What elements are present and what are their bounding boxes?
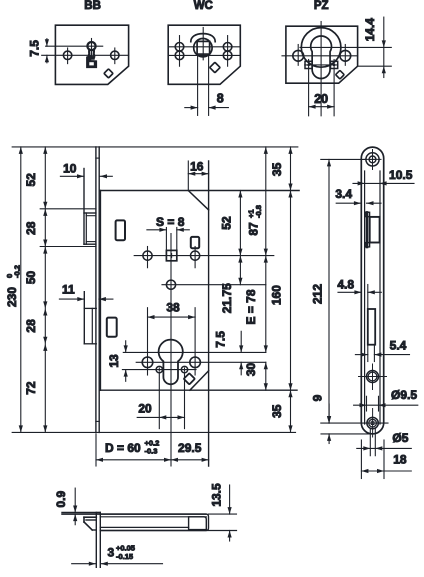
svg-text:PZ: PZ	[314, 0, 329, 12]
WC right twin vertical tick	[227, 36, 229, 67]
dimension 13.5 extension line top	[209, 513, 237, 515]
dimension S=8 line and arrows	[147, 229, 167, 231]
section faceplate strip	[95, 513, 97, 568]
WC center big circle	[194, 39, 212, 57]
svg-text:3: 3	[108, 546, 115, 560]
PZ left hole circle	[293, 50, 304, 61]
PZ circle axis line extended right	[300, 46, 391, 48]
dimension D extension line	[95, 434, 97, 466]
PZ horizontal center line	[282, 55, 358, 57]
dimension 52 right line and arrows	[239, 191, 241, 256]
dimension 20 extension lines main	[158, 374, 160, 429]
svg-text:8: 8	[217, 92, 224, 106]
svg-text:D = 60: D = 60	[105, 441, 141, 455]
svg-text:30: 30	[244, 363, 258, 377]
bottom fixing screw hole	[367, 417, 378, 428]
follower center line horizontal	[134, 255, 274, 257]
BB left hole circle	[63, 51, 71, 59]
main view diamond hole	[184, 373, 195, 384]
dimension 9 line and arrows	[328, 404, 330, 423]
PZ vertical center line	[320, 22, 322, 116]
follower square S=8	[166, 250, 176, 260]
dimension 18 line and arrows	[361, 470, 411, 472]
svg-text:S = 8: S = 8	[156, 215, 185, 229]
latch bolt face line	[83, 169, 85, 245]
PZ dimension 14.4 extension line lower	[358, 65, 392, 67]
svg-text:14.4: 14.4	[363, 18, 377, 42]
dimension 38 extension line left	[147, 308, 149, 375]
dimension S=8 extension lines	[165, 228, 167, 251]
PZ dimension 20 extension lines	[308, 60, 310, 116]
PZ left screw square	[305, 61, 312, 68]
dimension 4.8 extension line	[367, 285, 369, 310]
svg-text:7.5: 7.5	[213, 331, 227, 348]
dimension E=78 line and arrows	[265, 256, 267, 353]
svg-text:13.5: 13.5	[209, 483, 223, 507]
dimension 11 line and arrows	[59, 298, 84, 300]
dimension diameter 5 extension lines	[369, 429, 371, 456]
svg-text:160: 160	[269, 285, 283, 305]
dimension 16 extension line	[187, 161, 189, 191]
svg-text:87: 87	[247, 222, 261, 236]
dimension text 87 with tolerance	[247, 205, 264, 236]
case slot lower	[107, 318, 117, 337]
dimension 16 line and arrows	[188, 173, 208, 175]
svg-text:16: 16	[190, 159, 204, 173]
latch window thick edge	[366, 212, 369, 247]
cylinder screw line	[122, 369, 196, 371]
lock case left edge	[99, 191, 101, 391]
main bottom extension line	[12, 431, 295, 433]
svg-text:-0.3: -0.3	[145, 447, 158, 456]
WC right twin holes	[223, 43, 232, 52]
dimension 4.8 line and arrows	[338, 291, 361, 293]
dimension 87 line and arrows	[265, 147, 267, 256]
BB keyhole circle	[87, 42, 95, 50]
BB diamond hole	[104, 69, 113, 78]
left chain dimension line	[44, 147, 46, 433]
BB center line horizontal lower	[42, 54, 129, 56]
dimension 5.4 line and arrows	[355, 354, 367, 356]
lower guide circle extension line	[162, 284, 266, 286]
svg-text:5.4: 5.4	[390, 339, 407, 353]
deadbolt window opening	[368, 309, 375, 345]
middle fixing screw hole	[367, 371, 379, 383]
lock case top right bevel	[188, 191, 208, 210]
left chain arrows at 343.8	[43, 337, 47, 344]
euro cylinder profile main view	[159, 340, 183, 385]
follower right screw vertical tick	[194, 247, 196, 268]
dimension 3 line and arrows	[72, 563, 96, 565]
left chain arrows at 246.5	[43, 240, 47, 247]
dimension 38 line and arrows	[148, 316, 196, 318]
dimension 212 extension top	[321, 158, 366, 160]
svg-text:20: 20	[138, 402, 152, 416]
dimension 10.5 line and arrows	[353, 182, 414, 184]
BB right hole circle	[111, 51, 119, 59]
PZ escutcheon box outline	[286, 26, 358, 83]
WC center square follower	[197, 41, 210, 54]
WC left twin holes	[175, 43, 184, 52]
cylinder axis extension line	[123, 351, 265, 353]
overall dimension text 230 with tolerance	[5, 265, 22, 307]
PZ euro profile keyhole	[311, 36, 332, 78]
svg-text:Ø5: Ø5	[392, 431, 408, 445]
svg-text:38: 38	[166, 301, 180, 315]
BB escutcheon box outline	[55, 25, 128, 84]
svg-text:E = 78: E = 78	[244, 289, 258, 324]
PZ right hole circle	[340, 50, 351, 61]
faceplate notch top	[96, 157, 99, 159]
top fixing screw hole	[366, 153, 379, 166]
svg-text:50: 50	[24, 271, 38, 285]
main faceplate front edge line	[95, 147, 97, 433]
WC center vertical line	[202, 28, 204, 60]
svg-text:10.5: 10.5	[389, 168, 413, 182]
BB key bit	[87, 56, 97, 68]
dimension 9 extension line bottom	[321, 433, 373, 435]
cylinder right side circle	[190, 357, 201, 368]
svg-text:21.75: 21.75	[220, 283, 234, 313]
lower guide circle	[166, 280, 175, 289]
WC horizontal line upper	[168, 46, 240, 48]
follower left screw circle	[143, 251, 152, 260]
WC dimension 8 extension lines	[197, 54, 199, 115]
case slot upper	[116, 220, 125, 240]
dimension 35 top line and arrows	[290, 147, 292, 191]
svg-text:7.5: 7.5	[28, 40, 42, 57]
dimension 20 line and arrows main	[137, 416, 184, 418]
left chain arrows at 308.4	[43, 301, 47, 308]
PZ right hole vertical tick	[344, 45, 346, 66]
dimension 29.5 line and arrows	[171, 459, 209, 461]
PZ right screw square	[331, 61, 338, 68]
WC escutcheon box outline	[168, 25, 240, 84]
dimension diameter 9.5 extension lines	[366, 396, 368, 411]
svg-text:0.9: 0.9	[54, 491, 68, 508]
svg-text:35: 35	[270, 404, 284, 418]
WC horizontal line lower	[168, 54, 240, 56]
svg-text:212: 212	[311, 284, 325, 304]
svg-text:10: 10	[63, 162, 77, 176]
section latch wedge	[84, 516, 96, 518]
svg-text:BB: BB	[84, 0, 101, 12]
cylinder left screw circle	[156, 366, 162, 372]
PZ cylinder rose circle	[301, 28, 341, 68]
svg-text:20: 20	[314, 92, 328, 106]
dimension 212 line and arrows	[328, 159, 330, 423]
svg-text:52: 52	[220, 216, 234, 230]
PZ dimension 20 line and arrows	[309, 106, 335, 108]
overall dimension 230 line and arrows	[20, 147, 22, 433]
svg-text:18: 18	[393, 453, 407, 467]
svg-text:52: 52	[24, 173, 38, 187]
WC dimension 8 line and arrows	[185, 107, 198, 109]
svg-text:4.8: 4.8	[337, 278, 354, 292]
svg-text:9: 9	[311, 394, 325, 401]
left dimension chain extension line 246.5	[40, 246, 96, 248]
dimension 5.4 extension lines	[367, 345, 369, 362]
dimension 10 line and arrows	[60, 175, 84, 177]
svg-text:-0.15: -0.15	[116, 552, 133, 561]
cylinder left side circle	[142, 357, 153, 368]
svg-text:29.5: 29.5	[178, 441, 202, 455]
section end block	[189, 517, 207, 530]
svg-text:WC: WC	[194, 0, 213, 12]
lock case bottom edge with extension	[100, 389, 297, 391]
WC left twin vertical tick	[179, 36, 181, 67]
WC diamond hole	[210, 62, 220, 72]
section case top line	[62, 513, 206, 515]
dimension 3.4 line and arrows	[336, 202, 361, 204]
PZ left hole vertical tick	[297, 45, 299, 66]
dimension 30 line and arrows	[265, 362, 267, 390]
dimension diameter 9.5 line and arrows	[354, 404, 418, 406]
svg-text:28: 28	[24, 221, 38, 235]
BB right hole vertical tick	[114, 48, 116, 64]
faceplate inner channel lines	[364, 171, 366, 424]
section case bottom extension	[100, 530, 236, 532]
main top extension line	[12, 146, 298, 148]
PZ screw squares line	[305, 64, 338, 66]
BB keyhole vertical tick	[91, 39, 93, 59]
cylinder side holes line	[136, 361, 266, 363]
svg-text:28: 28	[24, 319, 38, 333]
left chain bottom arrow	[43, 425, 47, 432]
svg-text:-0.8: -0.8	[254, 205, 263, 218]
follower right screw circle	[191, 251, 200, 260]
dimension 13 line and arrows	[125, 341, 127, 353]
left chain arrows at 208.8	[43, 202, 47, 209]
latch window bottom tab	[365, 243, 369, 247]
WC dome arc on top	[191, 34, 215, 42]
dimension 21.75 line and arrows	[239, 256, 241, 285]
svg-text:13: 13	[107, 354, 121, 368]
svg-text:-0.2: -0.2	[13, 265, 22, 278]
deadbolt body	[84, 307, 96, 309]
dimension 7.5 right line and arrows	[240, 331, 242, 352]
BB keyhole shaft	[88, 50, 91, 57]
section case inner bottom line	[100, 526, 188, 528]
faceplate front view outline	[361, 147, 383, 434]
left dimension chain extension line 208.8	[40, 208, 96, 210]
svg-text:230: 230	[5, 287, 19, 307]
svg-text:72: 72	[24, 381, 38, 395]
section case inner top line	[100, 516, 206, 518]
svg-text:Ø9.5: Ø9.5	[391, 388, 417, 402]
dimension 35 bottom line and arrows	[290, 390, 292, 432]
follower square center mark	[170, 255, 174, 257]
svg-text:11: 11	[62, 282, 75, 296]
deadbolt face line	[83, 292, 85, 344]
lock case bottom right bevel	[190, 371, 209, 390]
BB dimension 7.5 line and arrows	[46, 39, 48, 47]
latch window top tab	[365, 212, 369, 216]
svg-text:35: 35	[270, 162, 284, 176]
slot above right follower screw	[191, 237, 199, 248]
cylinder right screw circle	[181, 366, 187, 372]
dimension 13.5 line and arrows	[229, 485, 231, 514]
dimension diameter 5 line and arrows	[357, 447, 412, 449]
section plate top extension line	[62, 512, 100, 514]
latch bolt body	[84, 212, 96, 214]
dimension 38 extension line right	[194, 308, 196, 375]
BB center line horizontal upper	[46, 45, 103, 47]
latch window opening	[370, 217, 380, 243]
lock case top edge with extension	[100, 190, 299, 192]
section case outline	[100, 514, 208, 530]
lock case right edge with extensions	[208, 161, 210, 466]
dimension 18 extension lines	[360, 440, 362, 479]
faceplate notch bottom	[96, 420, 99, 422]
BB left hole vertical tick	[67, 48, 69, 64]
PZ dimension 14.4 line and arrows	[383, 17, 385, 77]
main vertical center line	[170, 234, 172, 467]
dimension 0.9 line and arrows	[74, 488, 76, 512]
PZ diamond hole	[336, 70, 345, 79]
main faceplate back edge line	[98, 147, 100, 433]
svg-text:3.4: 3.4	[335, 187, 352, 201]
dimension 160 line and arrows	[290, 191, 292, 391]
follower left screw vertical tick	[147, 247, 149, 268]
dimension D=60 line and arrows	[96, 459, 171, 461]
dimension 212 extension bottom	[321, 422, 388, 424]
